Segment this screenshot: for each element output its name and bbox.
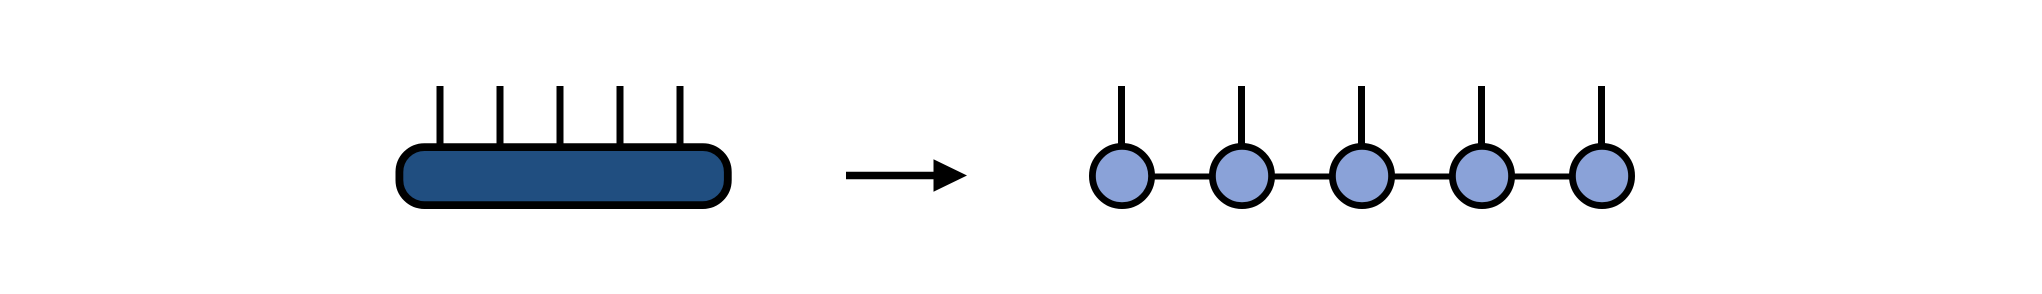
MPS tensor A4 (node circle) [1452, 146, 1511, 205]
leg j5 of MPS tensor A5 [1598, 86, 1605, 160]
bond wire A4-A5 [1482, 174, 1602, 180]
leg j2 of MPS tensor A2 [1238, 86, 1245, 160]
leg i2 of tensor T [497, 86, 504, 160]
leg i4 of tensor T [617, 86, 624, 160]
bond wire A2-A3 [1242, 174, 1362, 180]
bond wire A3-A4 [1362, 174, 1482, 180]
leg j4 of MPS tensor A4 [1478, 86, 1485, 160]
MPS tensor A5 (node circle) [1572, 146, 1631, 205]
bond wire A1-A2 [1122, 174, 1242, 180]
MPS tensor A1 (node circle) [1092, 146, 1151, 205]
leg i1 of tensor T [437, 86, 444, 160]
arrow (decomposition) [846, 159, 967, 191]
leg j1 of MPS tensor A1 [1118, 86, 1125, 160]
MPS tensor A2 (node circle) [1212, 146, 1271, 205]
leg j3 of MPS tensor A3 [1358, 86, 1365, 160]
leg i5 of tensor T [677, 86, 684, 160]
MPS tensor A3 (node circle) [1332, 146, 1391, 205]
leg i3 of tensor T [557, 86, 564, 160]
tensor T (order-5 tensor, stadium block) [399, 147, 727, 205]
